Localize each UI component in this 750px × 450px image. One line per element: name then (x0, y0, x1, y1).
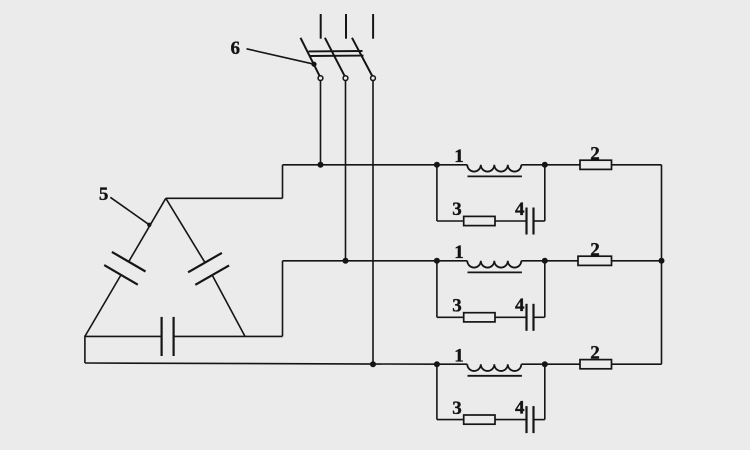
wire: phase B riser (282, 261, 284, 337)
node: branch 1 right (542, 162, 548, 168)
wire: phase A horizontal bus (283, 164, 437, 166)
switch 6 hinge contact pole 3 (371, 76, 376, 81)
node: branch 2 right (542, 258, 548, 264)
capacitor 4 (branch 3) plate 2 (532, 406, 534, 433)
wire: branch 3 lower to resistor 3 (437, 419, 464, 421)
wire: pole 2 down to phase B bus (345, 81, 347, 261)
node: branch 3 left (434, 361, 440, 367)
capacitor 4 (branch 2) plate 2 (532, 304, 534, 331)
capacitor bank 5: delta left side upper segment (129, 198, 166, 261)
node: branch 2 left (434, 258, 440, 264)
wire: branch 3 resistor 3 to capacitor 4 (495, 419, 527, 421)
capacitor 4 (branch 1) plate 2 (532, 208, 534, 235)
inductor 1 (branch 3) coil (467, 364, 521, 371)
label 5 leader line (110, 197, 149, 225)
capacitor 4 (branch 3) plate 1 (525, 406, 527, 433)
svg-text:2: 2 (590, 239, 600, 260)
wire: branch 1 lower drop (436, 165, 438, 221)
wire: branch 3 lower drop (436, 364, 438, 419)
svg-text:1: 1 (454, 146, 464, 167)
wire: delta left corner drop (84, 336, 86, 363)
wire: branch 3 top into coil (437, 363, 467, 365)
switch 6 blade pole 1 (301, 38, 320, 76)
inductor 1 (branch 1) coil (467, 165, 521, 172)
wire: branch 2 top into coil (437, 260, 467, 262)
wire: right vertical bus (661, 165, 663, 364)
capacitor bank 5: delta bottom side left segment (85, 335, 162, 337)
node: phase C / pole 3 junction (370, 361, 376, 367)
wire: branch 2 lower riser (544, 261, 546, 318)
svg-text:3: 3 (452, 398, 462, 419)
wire: branch 2 lower to resistor 3 (437, 316, 464, 318)
resistor 2 (branch 3) (580, 360, 612, 369)
capacitor C-bottom plate 1 (161, 317, 163, 356)
node: branch 1 left (434, 162, 440, 168)
svg-text:2: 2 (590, 343, 600, 364)
node: right bus / branch 2 junction (659, 258, 665, 264)
wire: branch 2 capacitor 4 to right riser (534, 316, 545, 318)
wire: pole 3 down to phase C bus (372, 81, 374, 365)
wire: branch 3 coil to right node (521, 363, 545, 365)
switch 6 hinge contact pole 2 (343, 76, 348, 81)
node: phase B / pole 2 junction (343, 258, 349, 264)
svg-text:1: 1 (454, 345, 464, 366)
wire: branch 3 resistor 2 to bus (612, 363, 662, 365)
label 5 leader dot (147, 223, 151, 227)
switch 6 hinge contact pole 1 (318, 76, 323, 81)
svg-text:2: 2 (590, 143, 600, 164)
capacitor C-right plate 1 (188, 253, 222, 272)
switch 6 blade pole 3 (352, 38, 372, 76)
resistor 3 (branch 1) (464, 216, 495, 225)
wire: phase input stub A (320, 14, 322, 39)
switch 6 linkage bar (309, 51, 364, 56)
capacitor C-bottom plate 2 (173, 317, 175, 356)
wire: phase A riser (282, 165, 284, 199)
wire: phase B horizontal bus (283, 260, 437, 262)
capacitor 4 (branch 1) plate 1 (525, 208, 527, 235)
label 6 leader dot (311, 62, 316, 67)
resistor 2 (branch 1) (580, 160, 612, 169)
switch 6 blade pole 2 (325, 38, 345, 76)
wire: phase C horizontal bus (85, 363, 437, 364)
wire: branch 2 lower drop (436, 261, 438, 318)
wire: phase input stub C (372, 14, 374, 39)
svg-text:4: 4 (515, 397, 525, 418)
wire: branch 1 resistor 2 to bus (612, 164, 662, 166)
node: phase A / pole 1 junction (318, 162, 324, 168)
capacitor bank 5: delta right side upper segment (166, 198, 205, 262)
wire: pole 1 down to phase A bus (320, 81, 322, 165)
wire: branch 1 top into coil (437, 164, 467, 166)
wire: delta apex to riser (166, 197, 283, 199)
capacitor bank 5: delta bottom side right segment (174, 335, 245, 337)
node: branch 3 right (542, 361, 548, 367)
resistor 2 (branch 2) (578, 256, 612, 265)
svg-text:3: 3 (452, 296, 462, 317)
wire: branch 1 coil to right node (521, 164, 545, 166)
inductor 1 (branch 1) core line (468, 175, 522, 177)
capacitor C-right plate 2 (195, 265, 229, 284)
label 6 leader line (247, 49, 315, 64)
svg-text:6: 6 (231, 38, 241, 59)
inductor 1 (branch 3) core line (468, 375, 522, 377)
svg-text:3: 3 (452, 199, 462, 220)
wire: branch 3 capacitor 4 to right riser (534, 419, 545, 421)
wire: branch 1 lower riser (544, 165, 546, 221)
svg-text:1: 1 (454, 242, 464, 263)
wire: branch 3 lower riser (544, 364, 546, 419)
capacitor C-left plate 1 (112, 252, 146, 272)
wire: branch 1 resistor 3 to capacitor 4 (495, 220, 527, 222)
wire: branch 3 node to resistor 2 (545, 363, 580, 365)
resistor 3 (branch 3) (464, 415, 495, 424)
resistor 3 (branch 2) (464, 313, 495, 322)
wire: branch 2 coil to right node (521, 260, 545, 262)
wire: branch 2 node to resistor 2 (545, 260, 578, 262)
wire: phase input stub B (345, 14, 347, 39)
capacitor 4 (branch 2) plate 1 (525, 304, 527, 331)
capacitor C-left plate 2 (104, 265, 138, 285)
wire: branch 1 capacitor 4 to right riser (534, 220, 545, 222)
capacitor bank 5: delta left side lower segment (85, 275, 121, 337)
svg-text:4: 4 (515, 199, 525, 220)
capacitor bank 5: delta right side lower segment (212, 275, 245, 336)
inductor 1 (branch 2) coil (467, 261, 521, 268)
svg-text:4: 4 (515, 295, 525, 316)
svg-text:5: 5 (99, 184, 109, 205)
inductor 1 (branch 2) core line (468, 271, 522, 273)
wire: branch 1 lower to resistor 3 (437, 220, 464, 222)
wire: delta right corner to riser (245, 335, 283, 337)
wire: branch 1 node to resistor 2 (545, 164, 580, 166)
wire: branch 2 resistor 3 to capacitor 4 (495, 316, 527, 318)
wire: branch 2 resistor 2 to bus (612, 260, 662, 262)
